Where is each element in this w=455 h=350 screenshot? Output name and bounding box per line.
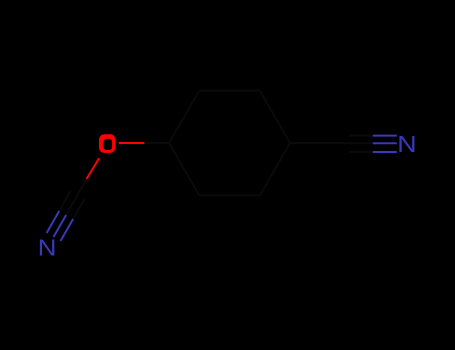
black bond halves (carbon side, near-invisible) [59, 136, 373, 219]
wire ring edge R-BR [260, 143, 290, 195]
wire cyanate C#N blue half line 1 [47, 211, 60, 233]
svg-text:N: N [397, 132, 416, 158]
wire ring edge TL-TR [199, 90, 259, 92]
wire cyanate C#N black half line 3 [73, 199, 84, 219]
wire nitrile C#N black half line 2 [349, 142, 373, 144]
wire ring edge BR-BL [199, 194, 259, 196]
wire nitrile C#N blue half line 3 [373, 151, 397, 153]
wire C1-O black half [144, 142, 169, 144]
triple bond C#N (cyanate) blue halves [47, 211, 74, 241]
wire O-C(cyanate) black half [77, 179, 86, 195]
wire cyanate C#N blue half line 3 [61, 219, 74, 241]
wire cyanate C#N black half line 2 [66, 195, 77, 215]
wire nitrile C#N blue half line 2 [373, 142, 397, 144]
wire nitrile C#N blue half line 1 [373, 135, 397, 137]
wire nitrile C#N black half line 1 [349, 135, 373, 137]
bond O-C1 red half [119, 142, 145, 144]
wire cyanate C#N black half line 1 [59, 191, 70, 211]
wire ring edge BL-L [169, 143, 199, 195]
wire cyanate C#N blue half line 2 [54, 215, 67, 237]
triple bond C#N (nitrile) blue halves [373, 136, 397, 152]
wire C4-C(nitrile) bond [290, 142, 349, 144]
svg-text:N: N [38, 236, 57, 262]
atom O [99, 134, 115, 153]
wire ring edge L-TL [169, 91, 199, 143]
wire ring edge TR-R [260, 91, 290, 143]
wire nitrile C#N black half line 3 [349, 151, 373, 153]
benzene ring C1-C6 [169, 91, 290, 196]
bond O-C(cyanate) red half [87, 158, 100, 179]
